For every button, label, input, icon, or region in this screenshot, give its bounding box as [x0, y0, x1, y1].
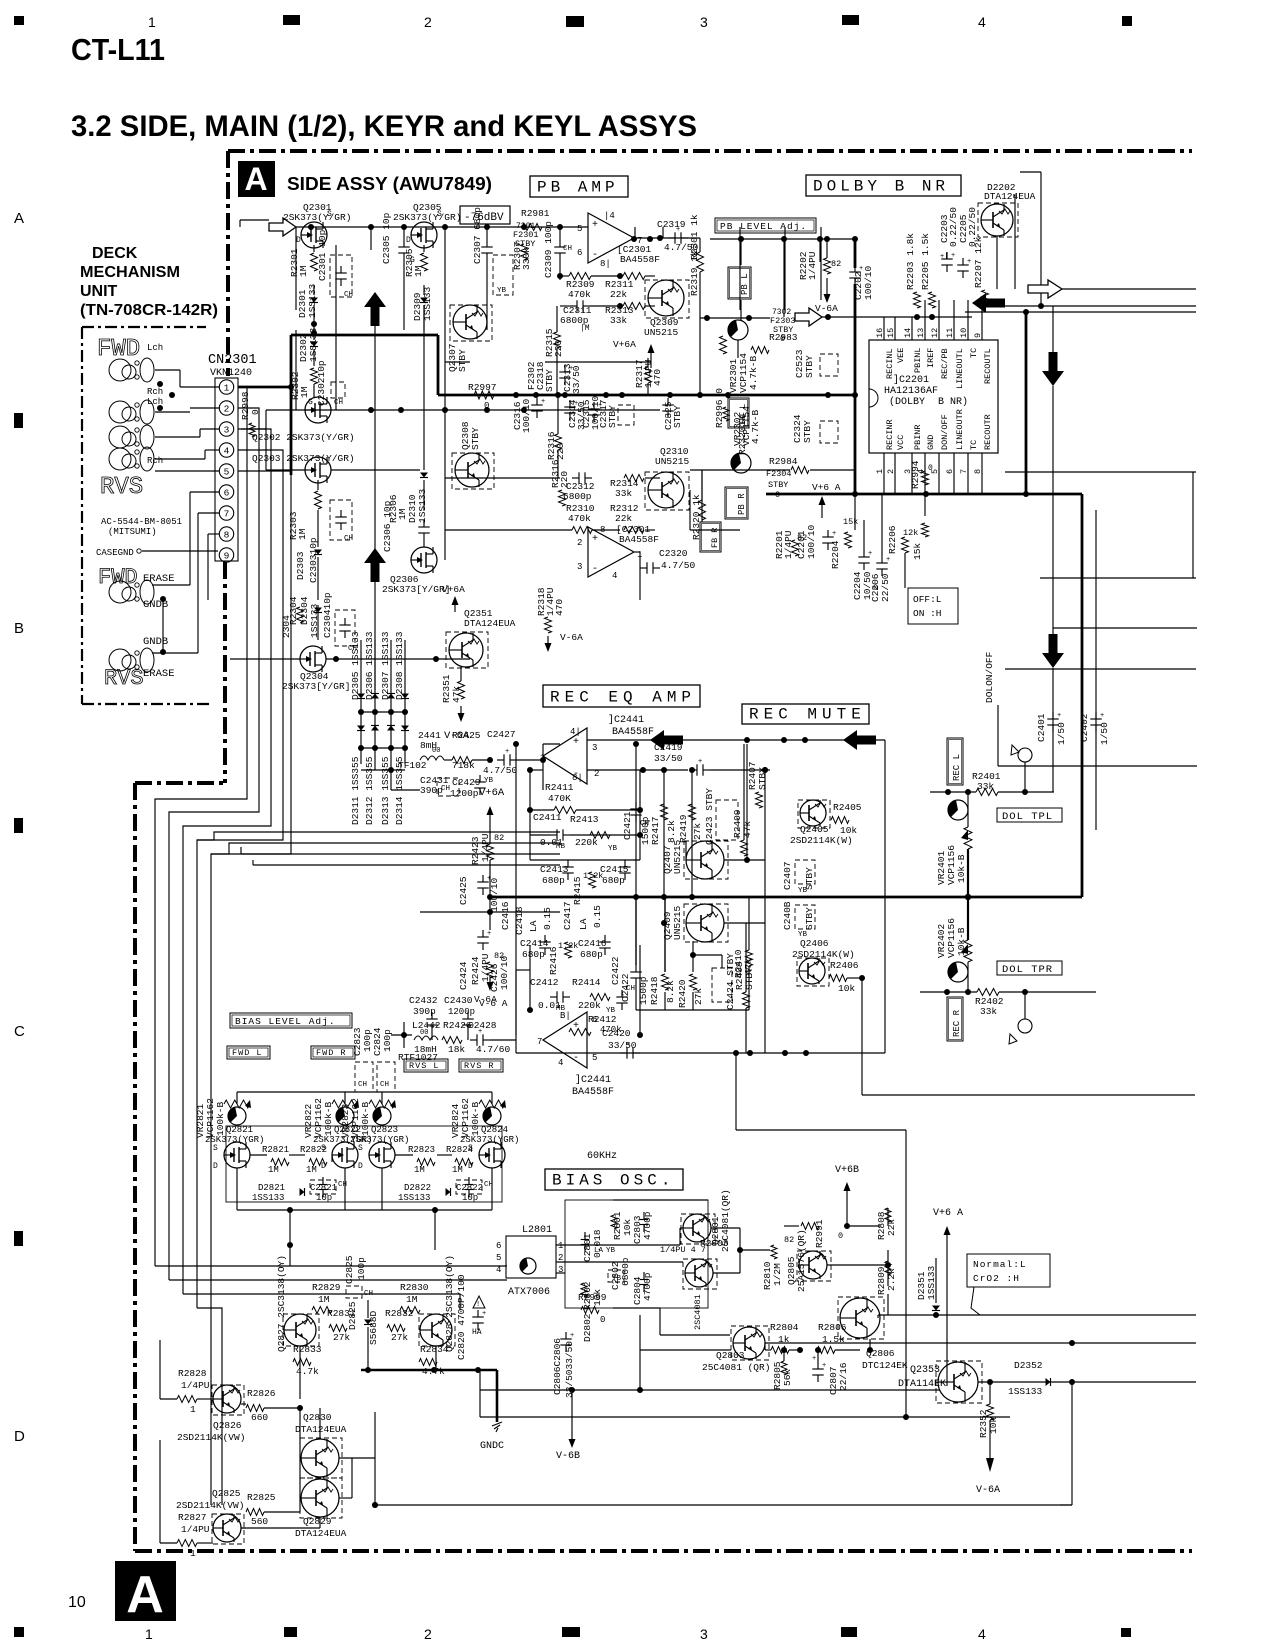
- svg-text:1/2M: 1/2M: [772, 1263, 783, 1286]
- svg-text:100/10: 100/10: [863, 265, 874, 300]
- resistor R2805 56k rotated: [772, 1347, 793, 1390]
- connector CN2301 pin 1: [219, 380, 233, 394]
- svg-text:CH: CH: [380, 1081, 389, 1089]
- svg-text:HA12136AF: HA12136AF: [884, 386, 938, 397]
- capacitor C2414 680p: [520, 935, 551, 960]
- wire pb level adj node: [710, 236, 855, 321]
- svg-text:+: +: [487, 875, 491, 883]
- svg-text:1SS133: 1SS133: [926, 1265, 937, 1300]
- wire main playback rail R channel: [241, 407, 660, 470]
- svg-text:D2306 1SS133: D2306 1SS133: [364, 631, 375, 700]
- svg-text:100/10: 100/10: [499, 955, 510, 990]
- svg-text:1/4PU: 1/4PU: [181, 1524, 210, 1535]
- svg-text:1M: 1M: [268, 1165, 279, 1175]
- svg-text:]C2441: ]C2441: [575, 1074, 611, 1086]
- svg-text:8: 8: [224, 529, 230, 540]
- svg-text:82: 82: [831, 259, 841, 269]
- svg-text:CH: CH: [334, 399, 343, 407]
- svg-text:390p: 390p: [420, 785, 443, 796]
- resistor R2825 560: [241, 1492, 300, 1528]
- svg-text:S5688D: S5688D: [368, 1310, 379, 1345]
- wire record line mid: [765, 1340, 1196, 1346]
- svg-text:2304: 2304: [281, 615, 292, 638]
- capacitor C2206 22/50 rotated: [870, 556, 891, 602]
- svg-text:BIAS LEVEL Adj.: BIAS LEVEL Adj.: [235, 1016, 336, 1027]
- svg-text:+: +: [859, 265, 863, 273]
- svg-text:C230310p: C230310p: [308, 537, 319, 583]
- svg-text:10k-B: 10k-B: [956, 854, 967, 883]
- svg-text:1/4PU: 1/4PU: [807, 251, 818, 280]
- svg-text:LINEOUTL: LINEOUTL: [955, 348, 965, 389]
- capacitor C2304 10p: [322, 592, 357, 653]
- capacitor C2301 10p: [317, 229, 353, 299]
- svg-text:1SS133: 1SS133: [398, 1193, 430, 1203]
- diode D2351 1SS133 rotated: [916, 1258, 940, 1315]
- resistor R2314 33k: [610, 475, 644, 500]
- svg-text:V+6 A: V+6 A: [933, 1208, 963, 1219]
- capacitor C2431 390p dashed: [420, 775, 459, 796]
- op-amp IC2301 BA4558F first half: [577, 211, 660, 269]
- connector CN2301 pin 7: [219, 506, 233, 520]
- wire output rails to sheet edge: [965, 289, 1196, 315]
- label box DOLBY B NR: [806, 175, 961, 196]
- svg-text:27k: 27k: [693, 988, 704, 1005]
- svg-text:R2831: R2831: [327, 1308, 356, 1319]
- resistor column R2417 8.2k: [650, 767, 677, 900]
- power label V+6A on bus: [812, 482, 841, 518]
- svg-text:C2427: C2427: [487, 729, 516, 740]
- svg-text:3: 3: [700, 14, 708, 30]
- svg-text:2SK373[Y/GR]: 2SK373[Y/GR]: [282, 681, 350, 692]
- svg-text:+: +: [967, 258, 971, 266]
- capacitor C2411 0.01: [530, 812, 640, 851]
- svg-text:1/4PU: 1/4PU: [181, 1380, 210, 1391]
- svg-text:12k: 12k: [903, 528, 918, 538]
- svg-text:CH: CH: [441, 785, 450, 793]
- svg-text:RVS R: RVS R: [464, 1061, 495, 1071]
- svg-text:10k: 10k: [838, 983, 855, 994]
- resistor R2981: [521, 208, 550, 231]
- svg-text:C230410p: C230410p: [322, 592, 333, 638]
- label RTF1027: [398, 1052, 438, 1063]
- svg-text:+: +: [505, 748, 509, 756]
- white signal arrow to next sheet right: [1028, 280, 1062, 298]
- svg-text:S: S: [213, 1144, 218, 1153]
- svg-text:CH: CH: [626, 985, 635, 993]
- resistor R2401 33k: [930, 771, 1054, 796]
- svg-text:Q2824: Q2824: [481, 1125, 508, 1135]
- labels C2418 0.15 rotated mid: [500, 901, 553, 935]
- resistor R2309 470k: [557, 273, 623, 301]
- IC2201 top pins 16-9 with labels: [875, 300, 993, 389]
- connector CN2301 pin 5: [219, 464, 233, 478]
- svg-text:Q2825: Q2825: [212, 1488, 241, 1499]
- svg-text:STBY: STBY: [607, 405, 618, 428]
- svg-text:C2416: C2416: [578, 938, 607, 949]
- svg-text:5: 5: [592, 1053, 597, 1063]
- svg-text:ATX7006: ATX7006: [508, 1287, 550, 1298]
- RVS playback head: [100, 425, 163, 501]
- black signal arrow down on DOLON line: [1042, 306, 1064, 669]
- connector CN2301 pin 4: [219, 443, 233, 457]
- wire thick V+6A bus lower: [490, 312, 1082, 897]
- wire keyboard driver interconnects: [160, 1340, 378, 1543]
- wire opamp2 inverting input node: [540, 744, 560, 790]
- svg-text:V+6A: V+6A: [479, 787, 505, 799]
- resistor R2425 18k: [444, 730, 493, 771]
- svg-text:C2416: C2416: [500, 901, 511, 930]
- diode D2822 1SS133: [398, 1183, 451, 1203]
- svg-text:220k: 220k: [578, 1000, 601, 1011]
- svg-text:Rch: Rch: [147, 387, 163, 397]
- svg-text:Q2829: Q2829: [303, 1516, 332, 1527]
- vertical box label FB L: [728, 398, 749, 428]
- wire bus lines running right to REC EQ amp: [197, 832, 560, 865]
- svg-text:D2305 1SS133: D2305 1SS133: [350, 631, 361, 700]
- svg-text:7: 7: [959, 469, 969, 474]
- svg-text:C2806C2806: C2806C2806: [552, 1338, 563, 1395]
- capacitor C2324 STBY rotated: [792, 414, 838, 443]
- svg-text:100k-B: 100k-B: [215, 1101, 226, 1136]
- capacitor C2801 0.018 rotated: [581, 1229, 616, 1262]
- resistor R2411 470k: [527, 782, 643, 814]
- power label V-6A below R2351: [444, 706, 470, 742]
- svg-text:C2411: C2411: [533, 812, 562, 823]
- svg-text:0: 0: [873, 583, 878, 593]
- black signal arrow left on line rail: [972, 293, 1005, 313]
- resistor R2316 220 rotated: [550, 459, 570, 506]
- transistor Q2805 25A1576(QR): [786, 1229, 831, 1292]
- capacitor C2407 STBY dashed rotated: [782, 860, 815, 895]
- svg-text:82: 82: [494, 833, 504, 843]
- callout Normal:L CrO2:H: [967, 1254, 1050, 1315]
- svg-text:R2405: R2405: [833, 802, 862, 813]
- assy boundary dash-dot border left lower segment: [133, 783, 137, 1551]
- svg-text:+: +: [676, 226, 680, 234]
- svg-text:D2307 1SS133: D2307 1SS133: [380, 631, 391, 700]
- svg-text:0: 0: [600, 1315, 605, 1325]
- op-amp IC2301 BA4558F second half: [577, 524, 659, 581]
- svg-text:0: 0: [838, 1231, 843, 1241]
- label box RVS R: [459, 1059, 503, 1072]
- svg-text:Q2822: Q2822: [334, 1125, 361, 1135]
- trimmer VR2821 VCP1162 100k-B: [195, 1098, 251, 1138]
- bias level block outline: [226, 1126, 502, 1202]
- svg-text:6: 6: [592, 1015, 597, 1025]
- capacitor C2804 4700p rotated: [632, 1272, 653, 1305]
- svg-text:CH: CH: [364, 1290, 373, 1298]
- svg-text:2SD2114K(VW): 2SD2114K(VW): [176, 1500, 244, 1511]
- svg-text:C2402: C2402: [1079, 713, 1090, 742]
- svg-text:47k: 47k: [451, 686, 462, 703]
- svg-text:S: S: [358, 1144, 363, 1153]
- svg-text:Q2823: Q2823: [371, 1125, 398, 1135]
- svg-text:Q2406: Q2406: [800, 938, 829, 949]
- svg-text:!: !: [476, 1301, 480, 1309]
- svg-text:6: 6: [224, 487, 230, 498]
- transistor Q2302 2SK373: [305, 397, 331, 423]
- svg-text:C2418: C2418: [514, 906, 525, 935]
- svg-text:+: +: [1057, 712, 1061, 720]
- svg-text:3: 3: [224, 424, 230, 435]
- resistor R2804 1k: [765, 1322, 803, 1354]
- svg-text:C2309 100p: C2309 100p: [543, 221, 554, 278]
- svg-text:YB: YB: [608, 845, 618, 853]
- electrolytic C2402 1/50 rotated: [1079, 712, 1110, 745]
- svg-text:27k: 27k: [333, 1332, 350, 1343]
- resistor R2826 660: [241, 1388, 300, 1423]
- transistor Q2351 DTA124EUA: [446, 608, 516, 668]
- svg-text:B NR): B NR): [938, 396, 968, 408]
- capacitor C2806 C2808 33/50 rotated labels: [552, 1332, 575, 1398]
- svg-text:-76dBV: -76dBV: [464, 212, 504, 224]
- resistor R2312 22k: [610, 503, 644, 534]
- svg-text:1200p: 1200p: [450, 788, 479, 799]
- svg-text:]C2201: ]C2201: [893, 374, 929, 386]
- svg-text:D2308 1SS133: D2308 1SS133: [394, 631, 405, 700]
- resistor R2415 1.2k: [572, 871, 603, 905]
- label box OFF:L ON:H: [908, 588, 958, 624]
- svg-text:R2826: R2826: [247, 1388, 276, 1399]
- svg-text:R2413: R2413: [570, 814, 599, 825]
- resistor R2998 0 near connector: [240, 391, 261, 437]
- svg-text:STBY: STBY: [804, 907, 815, 930]
- diode D2303 1SS133: [295, 510, 322, 600]
- diode D2825 rotated label: [347, 1300, 372, 1370]
- capacitor C2202 100/10 rotated: [849, 239, 874, 306]
- svg-text:100p: 100p: [382, 1029, 393, 1052]
- svg-text:16: 16: [875, 328, 885, 338]
- svg-text:R2829: R2829: [312, 1282, 341, 1293]
- connector CN2301 pin 6: [219, 485, 233, 499]
- IC U2201 HA12136AF DOLBY box: [869, 340, 998, 453]
- assembly title SIDE ASSY (AWU7849): [287, 173, 492, 194]
- capacitor C2807 22/16 rotated: [812, 1347, 849, 1395]
- svg-text:C2306 10p: C2306 10p: [382, 500, 393, 552]
- svg-text:+: +: [592, 220, 598, 231]
- svg-text:LA: LA: [578, 918, 589, 930]
- svg-text:+: +: [573, 737, 579, 748]
- svg-text:GNDB: GNDB: [143, 636, 168, 648]
- svg-text:10: 10: [959, 328, 969, 338]
- resistor R2803 label: [693, 1238, 729, 1330]
- svg-text:DOL TPR: DOL TPR: [1002, 964, 1053, 976]
- svg-text:S: S: [327, 210, 332, 219]
- svg-text:V+6B: V+6B: [835, 1165, 859, 1176]
- labels C2417 0.15 rotated: [562, 901, 603, 930]
- resistor R2207 12k rotated: [973, 236, 989, 306]
- resistor R2301k rotated near Q2310: [689, 214, 748, 455]
- svg-text:Q2353: Q2353: [910, 1365, 940, 1376]
- electrolytic C2426 100/10 rotated: [458, 930, 510, 992]
- svg-text:Rch: Rch: [147, 456, 163, 466]
- vertical box label PB L: [728, 267, 751, 299]
- svg-text:CH: CH: [640, 820, 649, 828]
- svg-text:GNDC: GNDC: [480, 1441, 504, 1452]
- wire vertical rec mute feed: [686, 744, 768, 923]
- resistor R2305 1M: [404, 245, 428, 277]
- wire rail into dolby pins: [700, 314, 972, 321]
- transistor Q2407 UN5215: [662, 839, 765, 879]
- label box FWD L: [227, 1046, 270, 1059]
- svg-text:+: +: [868, 550, 872, 558]
- svg-text:ERASE: ERASE: [143, 668, 175, 680]
- power label V-6B with down arrow: [556, 1390, 580, 1462]
- capacitor C2429 1200p: [450, 775, 494, 799]
- svg-text:STBY: STBY: [672, 405, 683, 428]
- signal entry white arrow F2303: [770, 308, 822, 344]
- svg-text:CH: CH: [344, 291, 353, 299]
- svg-text:R2991: R2991: [814, 1219, 825, 1248]
- resistor R2414 220k: [572, 977, 616, 1015]
- resistor R2201 1/4PU 82 rotated: [774, 530, 807, 559]
- svg-text:DOL TPL: DOL TPL: [1002, 811, 1053, 823]
- svg-text:BA4558F: BA4558F: [620, 254, 660, 265]
- svg-text:R2803: R2803: [700, 1238, 729, 1249]
- svg-text:4: 4: [224, 445, 230, 456]
- svg-text:IREF: IREF: [926, 348, 936, 368]
- svg-text:8.2k: 8.2k: [665, 980, 676, 1003]
- capacitor C2201 100/10 rotated: [796, 524, 836, 559]
- svg-text:1: 1: [558, 1241, 563, 1251]
- svg-text:R2419: R2419: [678, 814, 689, 843]
- label box RVS L: [404, 1059, 448, 1072]
- diode D2301 1SS133: [297, 283, 318, 330]
- svg-text:Q2803: Q2803: [716, 1350, 745, 1361]
- svg-text:MECHANISM: MECHANISM: [80, 264, 180, 281]
- wire into opamp2: [391, 1022, 516, 1048]
- resistor R2310 470k: [566, 503, 595, 534]
- transistor Q2301 2SK373(Y/GR): [283, 202, 351, 248]
- svg-text:2: 2: [577, 538, 582, 548]
- resistor R2352 10k rotated: [978, 1379, 999, 1438]
- svg-text:15: 15: [886, 328, 896, 338]
- connector CN2301 VKN1240: [208, 353, 257, 561]
- svg-text:Lch: Lch: [147, 343, 163, 353]
- svg-text:G: G: [410, 256, 415, 265]
- svg-text:+: +: [951, 252, 955, 260]
- svg-text:4: 4: [558, 1058, 563, 1068]
- power label V+6 A with arrow: [933, 1208, 963, 1386]
- transistor Q2823 2SK373(YGR): [350, 1125, 409, 1171]
- wire diode matrix to L2441: [361, 764, 420, 790]
- svg-text:1M: 1M: [406, 1294, 418, 1305]
- resistor R2823 1M: [408, 1145, 435, 1175]
- svg-text:R2204: R2204: [830, 540, 841, 569]
- svg-text:CH: CH: [344, 535, 353, 543]
- svg-text:390p: 390p: [413, 1006, 436, 1017]
- transistor Q2824 2SK373(YGR): [460, 1125, 519, 1171]
- resistor R2834 4.7k: [419, 1344, 449, 1377]
- svg-text:6: 6: [577, 248, 582, 258]
- left margin row letters A B C D: [14, 210, 25, 1445]
- transistor Q2801 25C4081(QR): [681, 1189, 731, 1252]
- capacitor C2320 4.7/50: [634, 548, 696, 574]
- capacitor cluster C2203 C2205 0.22/50 rotated: [939, 207, 978, 247]
- svg-text:D: D: [358, 1162, 363, 1171]
- wire bias switch line: [878, 1312, 1196, 1318]
- svg-text:R2415: R2415: [572, 876, 583, 905]
- transistor Q2303 2SK373: [266, 457, 420, 483]
- resistor R2416 1.2k rotated: [548, 941, 578, 975]
- op-amp IC2441 BA4558F second: [537, 1011, 614, 1098]
- svg-text:CN2301: CN2301: [208, 353, 257, 368]
- svg-text:YB: YB: [606, 1247, 616, 1255]
- svg-text:UNIT: UNIT: [80, 283, 118, 300]
- svg-text:5: 5: [224, 466, 230, 477]
- svg-text:1: 1: [145, 1626, 153, 1642]
- resistor R2206 12k: [887, 525, 918, 554]
- svg-text:8.2k: 8.2k: [666, 820, 677, 843]
- svg-text:+: +: [478, 1028, 482, 1036]
- svg-text:0: 0: [484, 401, 489, 411]
- svg-text:33k: 33k: [610, 315, 627, 326]
- svg-text:1.2k: 1.2k: [558, 941, 578, 951]
- capacitor C2306 10p: [382, 500, 430, 552]
- svg-text:27k: 27k: [391, 1332, 408, 1343]
- resistor R2833 4.7k: [293, 1344, 322, 1377]
- transistor Q2309 UN5215: [644, 280, 689, 338]
- resistor R2809 2.2k rotated: [876, 1261, 897, 1295]
- svg-text:|4: |4: [604, 211, 615, 221]
- power label V-6A near R2318: [545, 632, 584, 652]
- label 60KHz: [587, 1151, 617, 1162]
- svg-text:+: +: [886, 556, 890, 564]
- resistor R2420 27k below bus: [677, 941, 722, 1008]
- resistor R2808 22k rotated: [876, 1208, 897, 1240]
- svg-text:2: 2: [886, 469, 896, 474]
- svg-text:LINEOUTR: LINEOUTR: [955, 409, 965, 450]
- svg-text:YB: YB: [798, 887, 808, 895]
- svg-text:5: 5: [577, 224, 582, 234]
- transistor Q2830 DTA124EUA: [295, 1412, 347, 1478]
- label box -76dBV: [460, 206, 510, 224]
- capacitor C2412 0.01: [530, 977, 570, 1013]
- resistor R2822 1M: [300, 1145, 327, 1175]
- capacitor C2312 6800p: [563, 472, 595, 502]
- svg-text:R2984: R2984: [769, 456, 798, 467]
- resistor R2994 0 below IC gnd pin: [910, 460, 933, 489]
- transistor Q2307 STBY dashed: [447, 305, 492, 372]
- svg-text:PB AMP: PB AMP: [537, 179, 619, 197]
- svg-text:4: 4: [978, 1626, 986, 1642]
- svg-text:V+6A: V+6A: [613, 339, 636, 350]
- svg-text:DTA124EUA: DTA124EUA: [464, 618, 516, 629]
- svg-text:10k: 10k: [840, 825, 857, 836]
- svg-text:2SK373[Y/GR]: 2SK373[Y/GR]: [382, 584, 450, 595]
- svg-text:2SC4081: 2SC4081: [693, 1294, 703, 1330]
- svg-text:1M: 1M: [298, 265, 309, 277]
- svg-text:UN5215: UN5215: [672, 905, 683, 940]
- svg-text:4.7/50: 4.7/50: [483, 765, 518, 776]
- wire from D2352 down to bottom rail: [1060, 1382, 1072, 1505]
- svg-text:1M: 1M: [452, 1165, 463, 1175]
- resistor R2202 1/4PU 82 rotated: [798, 236, 841, 280]
- transistor Q2406 2SD2114K: [792, 938, 1195, 1095]
- svg-text:Q2302 2SK373(Y/GR): Q2302 2SK373(Y/GR): [252, 432, 355, 443]
- label box REC MUTE: [742, 704, 869, 724]
- op-amp IC2441 BA4558F first: [540, 714, 654, 784]
- svg-text:Q2826: Q2826: [213, 1420, 242, 1431]
- svg-text:2: 2: [424, 14, 432, 30]
- label S5688D rotated: [368, 1310, 379, 1345]
- resistor R2412 470k: [569, 1014, 622, 1036]
- svg-text:BIAS OSC.: BIAS OSC.: [552, 1172, 674, 1190]
- resistor R2829 1M: [312, 1282, 341, 1314]
- resistor R2827 1/4PU 1: [160, 1512, 213, 1559]
- svg-text:BA4558F: BA4558F: [572, 1087, 614, 1098]
- capacitor C2419 33/50 on feedback: [587, 742, 770, 776]
